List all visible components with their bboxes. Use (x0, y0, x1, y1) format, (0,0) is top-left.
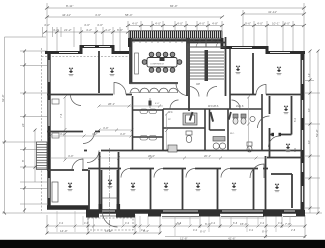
door arc upper right room (256, 85, 266, 95)
top protrusion striped band (conference/stair front wall) (129, 31, 222, 38)
svg-text:6'-8: 6'-8 (177, 222, 182, 225)
svg-text:UP: UP (196, 82, 200, 86)
svg-text:W.C.: W.C. (230, 133, 235, 135)
svg-text:4'-0": 4'-0" (97, 23, 103, 27)
exterior wall top-left (45, 47, 129, 53)
interior wall: second divider (129, 47, 131, 84)
svg-text:6'-0": 6'-0" (117, 28, 123, 32)
dim text top (44, 4, 290, 32)
interior wall: left rooms y131 (47, 131, 83, 133)
svg-text:4'-0": 4'-0" (199, 22, 205, 26)
arch colonnade below conference (130, 84, 179, 93)
interior wall: right upper horizontal (230, 94, 256, 96)
stair treads (189, 52, 224, 79)
entry stoop dashed (88, 218, 133, 230)
svg-text:24': 24' (21, 123, 25, 127)
svg-text:28'-1": 28'-1" (108, 102, 115, 106)
svg-text:4'-2": 4'-2" (92, 132, 98, 136)
right big door arc (into passage) (258, 116, 270, 128)
svg-text:4'-2": 4'-2" (44, 23, 50, 27)
svg-text:14': 14' (307, 73, 311, 77)
svg-text:4'-6": 4'-6" (95, 13, 101, 17)
roof overhang dashed left (41, 48, 43, 213)
svg-text:4'-0": 4'-0" (84, 23, 90, 27)
svg-text:4'-0": 4'-0" (155, 103, 160, 105)
svg-text:W.C.: W.C. (211, 39, 217, 43)
svg-text:8'-0": 8'-0" (200, 230, 206, 234)
svg-text:4'-0: 4'-0 (59, 222, 64, 225)
door arc left room (in y94.5 wall) (71, 95, 82, 106)
svg-text:84'-0": 84'-0" (170, 4, 178, 8)
credenza lower-left room (52, 182, 58, 202)
protrusion left side wall (128, 38, 131, 47)
interior dim right-middle (248, 97, 250, 150)
dimension lines top (5, 3, 305, 51)
stairwell walls (187, 37, 226, 96)
vestibule walls (102, 170, 118, 210)
svg-text:4'-0": 4'-0" (68, 154, 74, 158)
top wall window lines (59, 47, 290, 53)
stair stringer (205, 50, 209, 81)
entry door arc (103, 212, 118, 227)
svg-text:10': 10' (307, 108, 311, 112)
dimension lines left (2, 37, 88, 213)
wall: top-right rooms divider (252, 53, 254, 95)
svg-text:15'-4": 15'-4" (240, 222, 248, 226)
svg-text:4'-2": 4'-2" (53, 28, 59, 32)
svg-text:W.C.: W.C. (168, 111, 174, 114)
dimension lines bottom (47, 215, 305, 238)
interior wall: lower-left room top (y170) (47, 169, 88, 171)
closet block walls (left of utility) (133, 96, 164, 150)
dim arrows top (43, 7, 306, 34)
svg-text:4'-0": 4'-0" (257, 22, 263, 26)
svg-text:10': 10' (307, 140, 311, 144)
lobby dim line y106 (99, 106, 163, 130)
svg-text:4'-0: 4'-0 (125, 222, 130, 225)
svg-text:4'-0": 4'-0" (177, 22, 183, 26)
stair bottom doors (189, 87, 217, 97)
door leaves middle block (189, 112, 232, 122)
svg-text:4'-2": 4'-2" (60, 132, 66, 136)
interior wall: upper horizontal (y94) (47, 94, 113, 96)
door arc left rooms (in y131.5 wall) (83, 132, 95, 144)
svg-text:5'-0: 5'-0 (294, 117, 297, 122)
svg-text:CONFERENCE: CONFERENCE (150, 64, 165, 66)
svg-text:4'-0: 4'-0 (193, 229, 198, 232)
svg-text:W.C.: W.C. (190, 39, 196, 43)
svg-text:4'-0": 4'-0" (103, 126, 109, 130)
bottom wall window slits (101, 210, 295, 212)
exterior wall top-right (222, 38, 305, 53)
conference door arc (176, 84, 188, 96)
bathroom fixtures (168, 113, 255, 152)
bottom wall window sills (100, 216, 296, 218)
exterior wall right (301, 51, 305, 210)
stair wc cell walls (187, 38, 225, 47)
wall shelves left (52, 99, 59, 104)
lower-left room door arc (72, 159, 83, 170)
section marker corridor (149, 98, 152, 108)
door jambs right mid (272, 133, 275, 136)
interior wall: top-left rooms divider (98, 51, 100, 93)
svg-text:41'-11": 41'-11" (268, 10, 277, 14)
interior dim col left rooms (64, 97, 66, 160)
conference chairs top (142, 52, 182, 72)
svg-text:4'-0": 4'-0" (120, 132, 126, 136)
conference table (147, 58, 177, 68)
conference credenza (135, 53, 139, 74)
dimension lines right (305, 51, 322, 213)
svg-text:4'-2": 4'-2" (105, 28, 111, 32)
svg-text:8'-11": 8'-11" (66, 4, 73, 8)
corridor dimension line (50, 136, 300, 158)
exterior wall bottom (88, 209, 304, 214)
right lower door arc (250, 164, 264, 178)
band interior face line (129, 39, 223, 44)
conference room walls (131, 38, 189, 111)
svg-text:4'-0: 4'-0 (141, 229, 146, 232)
svg-text:20'-1": 20'-1" (204, 154, 211, 158)
svg-text:9'-6: 9'-6 (294, 147, 297, 152)
fan sym top-right room B (277, 66, 282, 75)
exterior stair ladder left (37, 142, 48, 170)
interior wall: corridor top (y150) (101, 150, 302, 152)
left wall window lines (48, 60, 50, 198)
roof overhang dashed top (42, 56, 129, 58)
exterior wall bottom notch (lower-left) (47, 205, 89, 210)
office door openings (white gaps) + arcs (74, 169, 263, 171)
entry jamb posts (99, 204, 103, 212)
svg-text:21'-2": 21'-2" (64, 28, 72, 32)
right wall window lines (302, 60, 304, 202)
svg-text:4'-0: 4'-0 (211, 222, 216, 225)
svg-text:W.O 2P-6: W.O 2P-6 (208, 105, 219, 108)
office partitions bottom row (89, 152, 266, 210)
centerline vertical (section mark) (109, 148, 111, 232)
svg-text:4'-0: 4'-0 (260, 222, 265, 225)
svg-text:16'-2": 16'-2" (105, 229, 113, 233)
black bottom band (0, 240, 325, 248)
right mid door arc (269, 136, 280, 147)
exterior wall left (47, 51, 50, 206)
svg-text:4'-8": 4'-8" (212, 22, 218, 26)
svg-text:4'-0": 4'-0" (132, 22, 138, 26)
svg-text:7'-6: 7'-6 (59, 113, 63, 118)
svg-text:8'-0": 8'-0" (262, 230, 268, 234)
bottom wall piers (darker) (86, 210, 305, 218)
svg-text:4'-0": 4'-0" (284, 22, 290, 26)
svg-text:28'-0": 28'-0" (148, 154, 155, 158)
svg-text:58'-4": 58'-4" (125, 13, 133, 17)
svg-text:6'-8: 6'-8 (233, 222, 238, 225)
svg-text:4'-0": 4'-0" (155, 22, 161, 26)
svg-text:9'-6": 9'-6" (245, 22, 251, 26)
svg-text:62'-0": 62'-0" (1, 94, 5, 102)
double door symbol upper (140, 109, 157, 140)
svg-text:44'-11": 44'-11" (62, 13, 71, 17)
svg-text:14'-0": 14'-0" (60, 229, 68, 233)
svg-text:4'-0: 4'-0 (278, 222, 283, 225)
entry threshold (102, 197, 118, 199)
svg-text:10'-1": 10'-1" (272, 22, 280, 26)
interior wall: corridor bottom / office row top (y168) (88, 168, 268, 170)
right side rooms walls (267, 96, 302, 208)
block dim vertical (166, 114, 168, 150)
bottom-right corner jog (263, 211, 271, 217)
svg-text:4'-2": 4'-2" (86, 28, 92, 32)
door arc into corridor left end (87, 151, 99, 163)
middle utility block outline (163, 49, 262, 150)
ceiling fan symbols with labels (68, 65, 291, 192)
svg-text:53'-9": 53'-9" (315, 129, 319, 137)
door arc lobby top (114, 83, 126, 95)
svg-text:2'-8: 2'-8 (291, 229, 296, 232)
bottom extension lines (57, 211, 290, 236)
corridor door arcs middle block (170, 100, 240, 109)
svg-text:4'-0: 4'-0 (249, 229, 254, 232)
